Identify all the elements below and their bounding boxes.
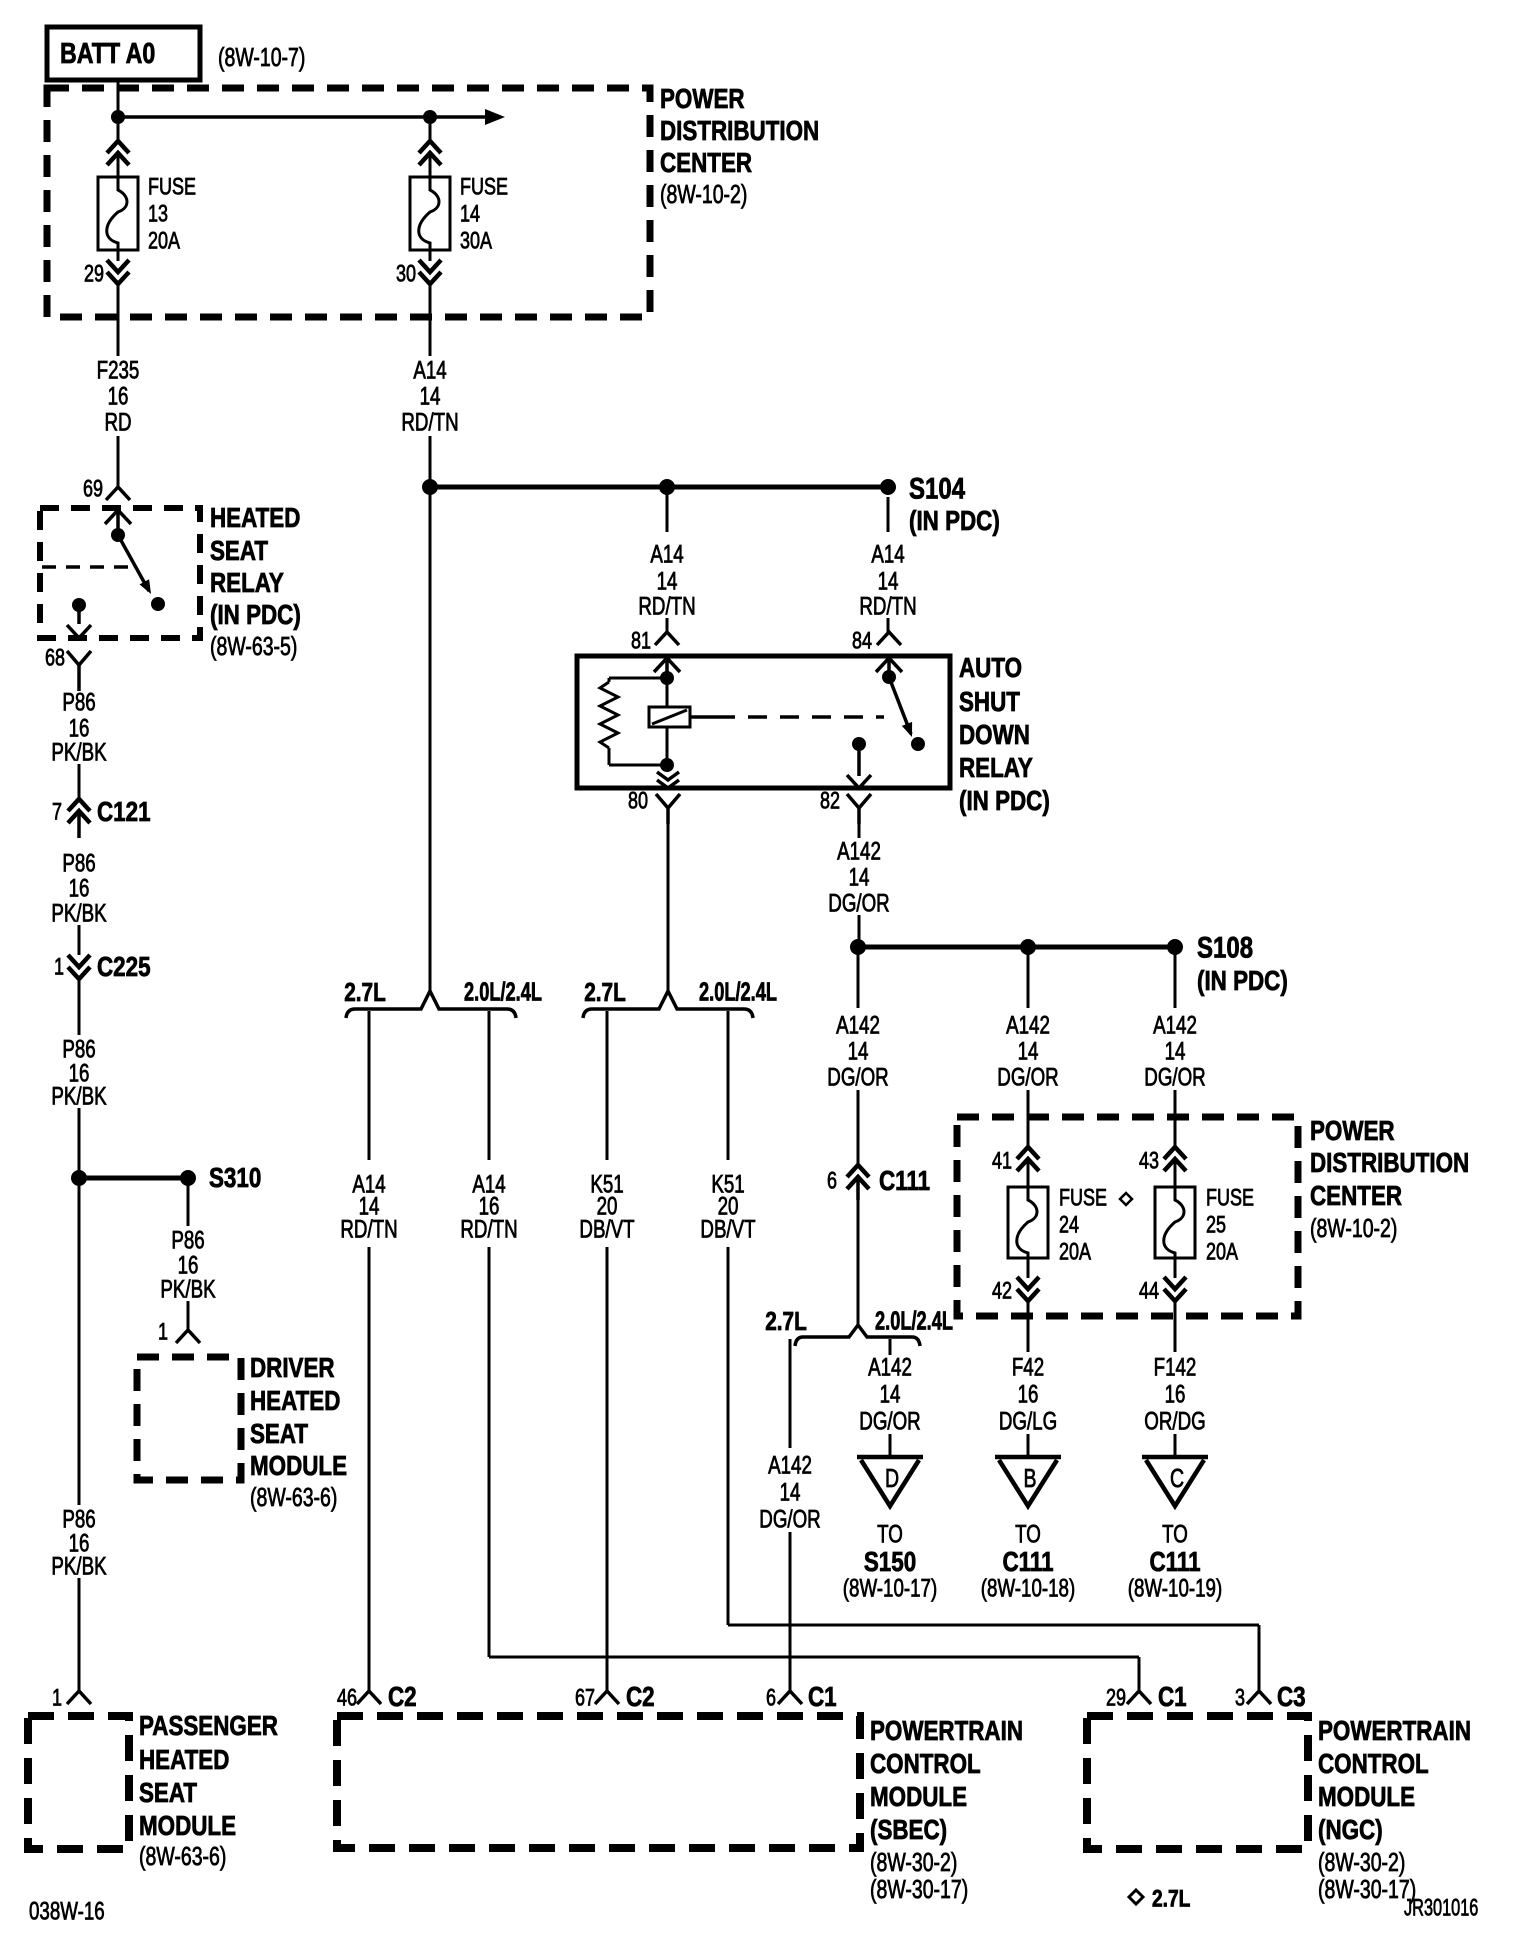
label POWERTRAIN CONTROL MODULE (SBEC): [870, 1716, 1023, 1904]
connector name C121: [97, 797, 151, 828]
wire chevron to fuse 25: [1174, 1159, 1177, 1187]
svg-text:2.0L/2.4L: 2.0L/2.4L: [875, 1307, 953, 1336]
junction dot at fuse 14 feed: [423, 110, 437, 124]
svg-text:2.7L: 2.7L: [765, 1307, 807, 1336]
connector name C111: [879, 1166, 930, 1197]
svg-text:14: 14: [420, 382, 441, 410]
svg-text:46: 46: [337, 1685, 357, 1711]
label FUSE 25 20A: [1206, 1185, 1254, 1265]
pin 30: [396, 261, 416, 287]
engine split brace 2: [583, 991, 753, 1018]
svg-text:SEAT: SEAT: [250, 1419, 309, 1450]
wire to passenger module: [78, 1578, 81, 1691]
wire below fuse 24: [1027, 1258, 1030, 1278]
svg-text:C: C: [1170, 1463, 1184, 1492]
svg-text:A142: A142: [768, 1451, 812, 1479]
wire label A142 14 DG/OR (pin82): [828, 837, 889, 917]
svg-text:14: 14: [1018, 1037, 1039, 1065]
ASD switch pivot node: [882, 670, 896, 684]
svg-text:PK/BK: PK/BK: [51, 1552, 106, 1580]
relay output arrow: [67, 605, 91, 638]
junction dot S108 right: [1167, 939, 1183, 955]
svg-text:81: 81: [631, 628, 651, 654]
wire brace2 left branch: [606, 1011, 609, 1160]
wire label P86 16 PK/BK (3): [51, 1035, 106, 1110]
svg-text:68: 68: [45, 645, 65, 671]
wire ASD pin 82 down: [858, 810, 861, 838]
wire label A142 14 DG/OR (to D): [859, 1353, 920, 1435]
svg-text:POWERTRAIN: POWERTRAIN: [870, 1716, 1023, 1747]
svg-text:24: 24: [1059, 1212, 1079, 1238]
relay contact node: [151, 597, 165, 611]
svg-text:F235: F235: [97, 356, 140, 384]
svg-text:69: 69: [83, 476, 103, 502]
svg-text:A14: A14: [650, 540, 683, 568]
svg-text:CENTER: CENTER: [1310, 1181, 1402, 1212]
svg-text:POWERTRAIN: POWERTRAIN: [1318, 1716, 1471, 1747]
label TO C111 (8W-10-19): [1128, 1520, 1222, 1602]
driver heated seat module box: [137, 1357, 241, 1480]
label DRIVER HEATED SEAT MODULE (8W-63-6): [250, 1353, 347, 1512]
connector tent driver module: [176, 1330, 200, 1343]
svg-text:MODULE: MODULE: [139, 1811, 236, 1842]
svg-text:14: 14: [849, 863, 870, 891]
svg-text:F142: F142: [1154, 1353, 1197, 1381]
svg-text:FUSE: FUSE: [460, 174, 508, 200]
label 2.7L (brace2): [584, 978, 626, 1007]
svg-text:DG/OR: DG/OR: [1144, 1063, 1205, 1091]
wire chevron to fuse 13: [117, 153, 120, 177]
connector Y pin 68: [67, 651, 91, 691]
svg-text:(IN PDC): (IN PDC): [909, 506, 1000, 537]
wire to triangle B: [1027, 1434, 1030, 1457]
sheet code JR301016: [1404, 1895, 1478, 1922]
junction dot S104 left: [422, 479, 438, 495]
svg-text:(8W-30-17): (8W-30-17): [1318, 1874, 1416, 1903]
svg-text:14: 14: [1165, 1037, 1186, 1065]
svg-text:HEATED: HEATED: [210, 503, 300, 534]
wire brace3 left to pin6: [789, 1532, 792, 1691]
ASD coil wires: [666, 678, 669, 765]
relay switch arm: [118, 535, 151, 594]
wire to C225: [78, 925, 81, 955]
wire K51 route to NGC pin3: [728, 1247, 1259, 1691]
svg-text:DB/VT: DB/VT: [579, 1215, 634, 1243]
label TO S150 (8W-10-17): [843, 1520, 937, 1602]
svg-text:B: B: [1023, 1463, 1036, 1492]
wire to C121: [78, 764, 81, 798]
svg-text:(8W-10-19): (8W-10-19): [1128, 1574, 1222, 1602]
connector C121 chevrons: [68, 799, 90, 838]
svg-text:DG/OR: DG/OR: [828, 889, 889, 917]
svg-text:DG/OR: DG/OR: [997, 1063, 1058, 1091]
svg-text:6: 6: [766, 1685, 776, 1711]
svg-text:(NGC): (NGC): [1318, 1815, 1383, 1846]
sheet number 038W-16: [29, 1897, 105, 1925]
wire label P86 16 PK/BK (passenger): [51, 1505, 106, 1580]
wire label F42 16 DG/LG: [999, 1353, 1057, 1435]
label POWER DISTRIBUTION CENTER (8W-10-2): [660, 84, 819, 209]
svg-text:82: 82: [820, 788, 840, 814]
fuse F14: [410, 177, 450, 250]
diamond marker 2.7L note: [1129, 1890, 1143, 1904]
svg-text:84: 84: [852, 628, 872, 654]
wire brace1 right branch: [488, 1011, 491, 1160]
wire label A14 14 RD/TN (left): [401, 356, 458, 436]
wire S104 to pin 84 stub: [887, 497, 890, 532]
ASD resistor wire top: [609, 678, 667, 682]
splice name S108: [1197, 930, 1253, 964]
svg-text:FUSE: FUSE: [1206, 1185, 1254, 1211]
connector tent pin 29: [1127, 1691, 1151, 1704]
auto shut down relay box: [577, 656, 950, 788]
svg-text:42: 42: [992, 1278, 1012, 1304]
svg-text:POWER: POWER: [1310, 1116, 1395, 1147]
wire brace3 right branch: [889, 1339, 892, 1355]
wire pin44 to PDC2 edge: [1174, 1301, 1177, 1352]
pin 6 SBEC: [766, 1685, 776, 1711]
junction dot S104 right: [880, 479, 896, 495]
connector tent pin 67: [595, 1691, 619, 1704]
svg-text:(8W-30-17): (8W-30-17): [870, 1874, 968, 1903]
connector Y pin 80: [656, 794, 680, 824]
pin 80: [628, 788, 648, 814]
label 2.7L note: [1152, 1884, 1190, 1912]
svg-text:A142: A142: [836, 1011, 880, 1039]
svg-text:F42: F42: [1012, 1353, 1044, 1381]
splice name S104: [909, 471, 965, 505]
svg-text:A142: A142: [1153, 1011, 1197, 1039]
svg-text:30: 30: [396, 261, 416, 287]
connector tent pin 6: [778, 1691, 802, 1704]
svg-text:OR/DG: OR/DG: [1144, 1407, 1205, 1435]
ASD coil top node: [660, 671, 674, 685]
wire S104 to pin 81 stub: [666, 487, 669, 532]
svg-text:(8W-30-2): (8W-30-2): [1318, 1847, 1405, 1876]
svg-text:CONTROL: CONTROL: [870, 1749, 981, 1780]
svg-text:RD/TN: RD/TN: [340, 1215, 397, 1243]
svg-text:S310: S310: [209, 1163, 261, 1194]
wire S310 branch stub: [187, 1178, 190, 1226]
svg-text:PK/BK: PK/BK: [51, 1082, 106, 1110]
wire below fuse 13: [117, 250, 120, 261]
svg-text:DG/OR: DG/OR: [827, 1063, 888, 1091]
svg-text:PK/BK: PK/BK: [51, 738, 106, 766]
pin 81: [631, 628, 651, 654]
svg-text:(8W-63-6): (8W-63-6): [250, 1482, 337, 1511]
label 2.0L/2.4L (brace1): [464, 978, 542, 1007]
svg-text:16: 16: [108, 382, 129, 410]
splice bus S104: [430, 485, 888, 490]
wire below C225: [78, 979, 81, 1035]
svg-text:(SBEC): (SBEC): [870, 1815, 947, 1846]
svg-text:RD/TN: RD/TN: [401, 408, 458, 436]
pin 44: [1139, 1278, 1159, 1304]
svg-text:1: 1: [54, 954, 64, 980]
svg-text:DB/VT: DB/VT: [700, 1215, 755, 1243]
splice S108 location (IN PDC): [1197, 966, 1288, 997]
battery feed box BATT A0: [47, 27, 200, 80]
svg-text:DG/OR: DG/OR: [859, 1407, 920, 1435]
pin 84: [852, 628, 872, 654]
svg-text:SHUT: SHUT: [959, 687, 1020, 718]
connector chevrons pin 44: [1164, 1277, 1186, 1301]
ASD pin 84 arrow: [876, 658, 902, 677]
connector name C1 (pin29): [1158, 1682, 1187, 1713]
svg-text:RD/TN: RD/TN: [638, 592, 695, 620]
wire BATT A0 to node: [117, 80, 120, 117]
svg-text:20A: 20A: [1059, 1239, 1092, 1265]
connector chevrons above fuse 14: [419, 141, 441, 165]
svg-text:16: 16: [1018, 1380, 1039, 1408]
pin 82: [820, 788, 840, 814]
wire A14 to SBEC pin46: [368, 1247, 371, 1691]
powertrain control module NGC box: [1087, 1716, 1308, 1849]
svg-text:RD: RD: [104, 408, 131, 436]
svg-text:S150: S150: [864, 1547, 916, 1578]
reference (8W-10-7): [218, 42, 305, 71]
svg-text:CENTER: CENTER: [660, 148, 752, 179]
ASD pin 82 arrow: [847, 744, 871, 788]
wire label P86 16 PK/BK (1): [51, 688, 106, 766]
svg-text:RELAY: RELAY: [959, 753, 1033, 784]
pin 1 passenger module: [52, 1685, 62, 1711]
svg-text:038W-16: 038W-16: [29, 1897, 105, 1925]
off-page connector C: [1142, 1457, 1208, 1506]
svg-text:1: 1: [158, 1319, 168, 1345]
svg-text:43: 43: [1139, 1148, 1159, 1174]
wire label A14 14 RD/TN (pin84): [859, 540, 916, 620]
fuse F13: [98, 177, 138, 250]
svg-text:TO: TO: [1015, 1520, 1041, 1548]
svg-text:14: 14: [880, 1380, 901, 1408]
svg-text:C111: C111: [879, 1166, 930, 1197]
label AUTO SHUT DOWN RELAY (IN PDC): [959, 653, 1050, 817]
heated seat relay internal dashed line: [42, 565, 133, 569]
junction dot at fuse 13 feed: [111, 110, 125, 124]
wire to S310: [78, 1108, 81, 1178]
label 2.0L/2.4L (brace2): [699, 978, 777, 1007]
ASD pin 80 chevrons: [657, 772, 679, 788]
svg-text:6: 6: [827, 1168, 837, 1194]
svg-text:C111: C111: [1149, 1547, 1200, 1578]
svg-text:16: 16: [1165, 1380, 1186, 1408]
wire label F142 16 OR/DG: [1144, 1353, 1205, 1435]
svg-text:2.7L: 2.7L: [1152, 1884, 1190, 1912]
svg-text:RELAY: RELAY: [210, 568, 284, 599]
connector tent pin 84: [877, 632, 901, 645]
svg-text:41: 41: [992, 1148, 1012, 1174]
connector tent pin 3: [1247, 1691, 1271, 1704]
pin 29 NGC: [1106, 1685, 1126, 1711]
wire label A142 14 DG/OR (to C1): [759, 1451, 820, 1533]
svg-text:JR301016: JR301016: [1404, 1895, 1478, 1922]
wire brace3 left branch: [789, 1339, 792, 1448]
wire label K51 20 DB/VT (to C3): [700, 1170, 755, 1243]
connector C225 chevrons: [68, 955, 90, 979]
connector chevrons pin 41: [1017, 1147, 1039, 1171]
junction dot S310 right: [180, 1170, 196, 1186]
ASD actuator dashed link: [690, 715, 884, 719]
connector C111 chevrons: [847, 1165, 869, 1200]
pin 46: [337, 1685, 357, 1711]
wire S108 right stub: [1174, 947, 1177, 1008]
svg-text:MODULE: MODULE: [250, 1451, 347, 1482]
svg-text:(8W-10-7): (8W-10-7): [218, 42, 305, 71]
wire label A14 14 RD/TN (pin81): [638, 540, 695, 620]
connector tent pin 46: [357, 1691, 381, 1704]
label 2.7L (brace1): [344, 978, 386, 1007]
junction dot S104 mid: [659, 479, 675, 495]
connector tent pin 81: [655, 632, 679, 645]
svg-text:67: 67: [575, 1685, 595, 1711]
svg-text:C121: C121: [97, 797, 151, 828]
svg-text:D: D: [885, 1463, 899, 1492]
wire label A14 16 RD/TN (to C1): [460, 1170, 517, 1243]
svg-text:2.7L: 2.7L: [344, 978, 386, 1007]
pin 3 NGC: [1235, 1685, 1245, 1711]
ASD contact node: [911, 737, 925, 751]
svg-text:20A: 20A: [148, 228, 181, 254]
engine split brace 3: [795, 1325, 920, 1346]
svg-text:P86: P86: [62, 688, 95, 716]
svg-text:44: 44: [1139, 1278, 1159, 1304]
wire to pin 81: [666, 618, 669, 632]
svg-text:SEAT: SEAT: [210, 536, 269, 567]
wire label A142 14 DG/OR (right): [1144, 1011, 1205, 1091]
wire label A142 14 DG/OR (mid): [997, 1011, 1058, 1091]
ASD coil bottom node: [660, 758, 674, 772]
svg-text:7: 7: [52, 799, 62, 825]
off-page connector D: [857, 1457, 923, 1506]
pin 42: [992, 1278, 1012, 1304]
svg-text:(IN PDC): (IN PDC): [1197, 966, 1288, 997]
svg-text:DRIVER: DRIVER: [250, 1353, 335, 1384]
power distribution center box (lower): [957, 1117, 1298, 1316]
connector chevrons pin 29: [107, 260, 129, 284]
ASD resistor: [600, 682, 618, 748]
wire A14-16 route to NGC pin29: [489, 1247, 1139, 1691]
svg-text:2.7L: 2.7L: [584, 978, 626, 1007]
wire brace1 left branch: [368, 1011, 371, 1160]
svg-text:25: 25: [1206, 1212, 1226, 1238]
junction dot S108 mid: [1020, 939, 1036, 955]
connector chevrons pin 42: [1017, 1277, 1039, 1301]
svg-text:(8W-30-2): (8W-30-2): [870, 1847, 957, 1876]
svg-text:(8W-10-17): (8W-10-17): [843, 1574, 937, 1602]
svg-text:HEATED: HEATED: [139, 1745, 229, 1776]
wire into PDC2 fuse24: [1027, 1090, 1030, 1147]
svg-text:HEATED: HEATED: [250, 1386, 340, 1417]
wire below fuse 14: [429, 250, 432, 261]
wire S310 to passenger label: [78, 1186, 81, 1505]
wire into PDC2 fuse25: [1174, 1090, 1177, 1147]
pin 69: [83, 476, 103, 502]
wire to C111: [857, 1090, 860, 1164]
svg-text:A14: A14: [871, 540, 904, 568]
wire to triangle D: [889, 1434, 892, 1457]
wire to fuse 14: [429, 117, 432, 142]
wire S104 mid branch down: [429, 487, 432, 991]
svg-text:(8W-10-18): (8W-10-18): [981, 1574, 1075, 1602]
wire C111 to brace3: [857, 1200, 860, 1325]
pin 41: [992, 1148, 1012, 1174]
wire label K51 20 DB/VT (to C2): [579, 1170, 634, 1243]
engine split brace 1: [346, 991, 516, 1018]
splice name S310: [209, 1163, 261, 1194]
svg-text:29: 29: [84, 261, 104, 287]
pin 1 C225: [54, 954, 64, 980]
svg-text:PK/BK: PK/BK: [51, 899, 106, 927]
svg-text:13: 13: [148, 201, 168, 227]
wire chevron to fuse 24: [1027, 1159, 1030, 1187]
relay output node: [72, 598, 86, 612]
label FUSE 13 20A: [148, 174, 196, 254]
label HEATED SEAT RELAY (IN PDC) (8W-63-5): [210, 503, 301, 661]
wire pin30 to PDC edge: [429, 284, 432, 356]
connector name C1 (pin6): [808, 1682, 837, 1713]
svg-text:C225: C225: [97, 952, 151, 983]
svg-text:MODULE: MODULE: [1318, 1782, 1415, 1813]
svg-text:CONTROL: CONTROL: [1318, 1749, 1429, 1780]
wire label P86 16 PK/BK (S310): [160, 1226, 215, 1303]
svg-text:14: 14: [848, 1037, 869, 1065]
relay pin 69 arrow: [105, 510, 131, 534]
wire to fuse 13: [117, 117, 120, 142]
splice bus S108: [858, 945, 1175, 950]
svg-text:A142: A142: [868, 1353, 912, 1381]
junction dot S108 left: [850, 939, 866, 955]
connector tent pin 69: [106, 487, 130, 500]
ASD pin 81 arrow: [654, 658, 680, 677]
svg-text:(8W-10-2): (8W-10-2): [1310, 1213, 1397, 1242]
svg-text:DG/OR: DG/OR: [759, 1505, 820, 1533]
svg-text:14: 14: [460, 201, 480, 227]
ASD pin 82 node: [852, 737, 866, 751]
pin 43: [1139, 1148, 1159, 1174]
powertrain control module SBEC box: [337, 1716, 860, 1848]
ASD relay coil: [649, 707, 690, 727]
passenger heated seat module box: [28, 1716, 129, 1849]
svg-text:DG/LG: DG/LG: [999, 1407, 1057, 1435]
splice bus S310: [79, 1176, 188, 1181]
pin 1 driver module: [158, 1319, 168, 1345]
svg-text:RD/TN: RD/TN: [460, 1215, 517, 1243]
pin 29: [84, 261, 104, 287]
fuse F25: [1155, 1187, 1195, 1258]
wire label A14 14 RD/TN (to C2): [340, 1170, 397, 1243]
label PASSENGER HEATED SEAT MODULE (8W-63-6): [139, 1711, 278, 1871]
svg-text:POWER: POWER: [660, 84, 745, 115]
connector chevrons above fuse 13: [107, 141, 129, 165]
label 2.7L (brace3): [765, 1307, 807, 1336]
fuse F24: [1008, 1187, 1048, 1258]
ASD switch arm: [889, 677, 912, 737]
svg-text:A142: A142: [837, 837, 881, 865]
wire pin29 to PDC edge: [117, 284, 120, 356]
connector Y pin 82: [847, 794, 871, 824]
wire below fuse 25: [1174, 1258, 1177, 1278]
label TO C111 (8W-10-18): [981, 1520, 1075, 1602]
wire ASD pin 80 down: [667, 810, 670, 991]
svg-text:1: 1: [52, 1685, 62, 1711]
pin 7: [52, 799, 62, 825]
svg-text:14: 14: [780, 1478, 801, 1506]
wire label P86 16 PK/BK (2): [51, 849, 106, 927]
junction dot S310 left: [71, 1170, 87, 1186]
svg-text:(8W-63-6): (8W-63-6): [139, 1841, 226, 1870]
svg-text:C3: C3: [1277, 1682, 1306, 1713]
